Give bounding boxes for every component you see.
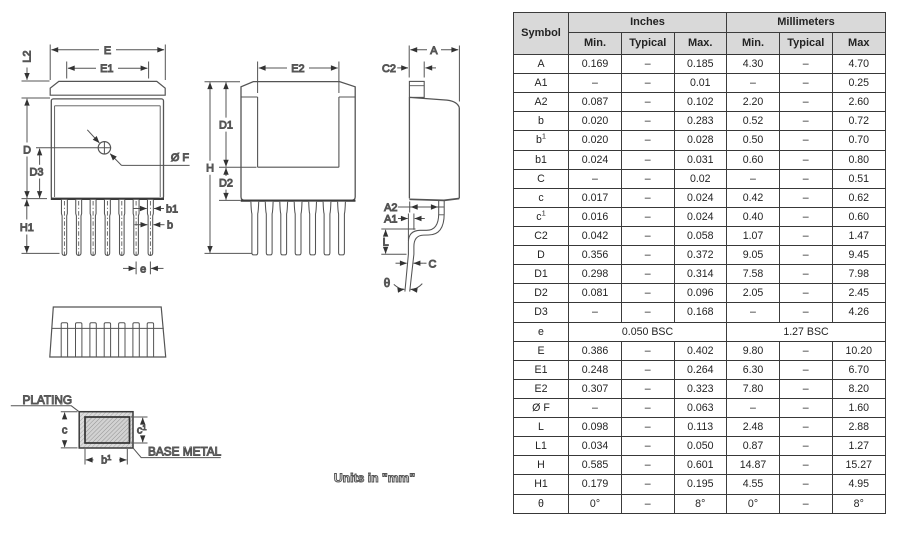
- svg-text:b1: b1: [101, 453, 111, 467]
- dimension H1: [26, 199, 28, 206]
- dimension c1: [131, 416, 148, 418]
- front view tab: [50, 81, 165, 95]
- svg-text:H: H: [206, 163, 214, 175]
- hole O F: [98, 142, 110, 154]
- svg-text:A: A: [430, 45, 438, 57]
- back window: [241, 97, 355, 167]
- dimension E1: [66, 62, 68, 79]
- back lead 4: [294, 202, 302, 255]
- front lead 5: [119, 200, 125, 256]
- dimension table: [513, 12, 886, 514]
- dimension E: [49, 45, 51, 81]
- back lead 7: [338, 202, 346, 255]
- label BASE METAL: [133, 448, 221, 458]
- front lead 4: [104, 200, 110, 256]
- svg-text:H1: H1: [20, 222, 34, 234]
- dimension D1: [225, 82, 227, 89]
- front lead 6: [133, 200, 139, 256]
- bottom view lead 6: [133, 323, 139, 357]
- svg-text:c: c: [62, 424, 68, 436]
- dimension e: [135, 262, 137, 275]
- svg-text:A2: A2: [384, 202, 397, 214]
- bottom view lead 2: [76, 323, 82, 357]
- svg-text:L2: L2: [22, 50, 34, 62]
- back view body: [241, 82, 355, 201]
- svg-text:b: b: [167, 220, 173, 232]
- svg-text:D2: D2: [219, 177, 233, 189]
- svg-text:e: e: [140, 263, 146, 275]
- bottom view lead 7: [147, 323, 153, 357]
- svg-text:E: E: [104, 45, 111, 57]
- base metal section: [85, 417, 130, 443]
- dimension c: [61, 411, 78, 413]
- side body: [409, 97, 459, 198]
- svg-text:C: C: [429, 258, 437, 270]
- svg-text:C2: C2: [382, 63, 396, 75]
- back lead 5: [309, 202, 317, 255]
- dimension H: [205, 81, 241, 83]
- side lead: [405, 200, 439, 292]
- svg-text:Units in "mm": Units in "mm": [334, 471, 415, 485]
- side boss: [409, 81, 424, 97]
- dimension D2: [225, 168, 227, 175]
- bottom view lead 5: [119, 323, 125, 357]
- front lead 7: [147, 200, 153, 256]
- svg-text:D3: D3: [30, 166, 44, 178]
- svg-text:Ø F: Ø F: [171, 152, 189, 164]
- svg-text:L: L: [383, 237, 389, 249]
- dimension b1: [134, 208, 147, 210]
- bottom view outline: [50, 307, 166, 357]
- dimension D3: [36, 147, 98, 149]
- dimension b: [135, 224, 148, 226]
- front body inner top line: [55, 106, 161, 197]
- svg-text:θ: θ: [384, 278, 390, 290]
- back lead 2: [265, 202, 273, 255]
- svg-text:E1: E1: [100, 63, 113, 75]
- dimension D: [26, 99, 28, 106]
- front lead 3: [90, 200, 96, 256]
- bottom view lead 4: [104, 323, 110, 357]
- svg-text:E2: E2: [291, 63, 304, 75]
- svg-text:A1: A1: [384, 213, 397, 225]
- svg-text:c1: c1: [137, 423, 147, 437]
- back lead 1: [251, 202, 259, 255]
- dimension E2: [257, 62, 259, 94]
- plating section: [79, 412, 133, 448]
- svg-text:b1: b1: [166, 204, 178, 216]
- front body bottom edge: [51, 198, 164, 200]
- svg-text:D1: D1: [219, 119, 233, 131]
- dimension L: [381, 228, 415, 230]
- svg-text:PLATING: PLATING: [23, 393, 73, 407]
- front lead 1: [61, 200, 67, 256]
- svg-text:BASE METAL: BASE METAL: [148, 444, 222, 458]
- bottom view lead 3: [90, 323, 96, 357]
- dimension A: [408, 46, 410, 78]
- bottom view lead 1: [61, 323, 67, 357]
- back lead 6: [323, 202, 331, 255]
- dimension C: [396, 262, 407, 264]
- dimension b1 (section): [84, 449, 86, 465]
- front lead 2: [76, 200, 82, 256]
- front view body: [51, 99, 163, 199]
- svg-text:D: D: [23, 144, 31, 156]
- back body bottom edge: [241, 200, 356, 202]
- back lead 3: [280, 202, 288, 255]
